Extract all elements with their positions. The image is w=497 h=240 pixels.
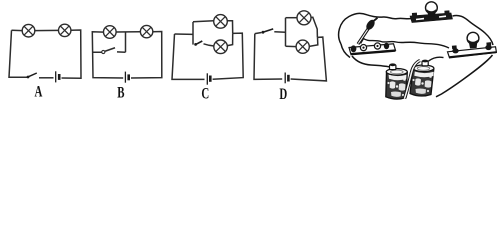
svg-text:C: C (201, 84, 209, 101)
battery BB (125, 72, 128, 83)
node wire: junction vertical (285, 18, 287, 46)
battery BA (56, 71, 60, 82)
lower branch wire (286, 45, 297, 47)
node wire: junction between lamps down (125, 32, 127, 52)
wire: switch to left cell button (352, 56, 391, 67)
wire: bulb 2 to switch right post (361, 39, 450, 49)
lamp A2 (58, 24, 70, 36)
lamp D1 (upper branch) (297, 11, 311, 25)
battery BC (207, 73, 210, 84)
wire: between cells to right cell button (405, 61, 421, 99)
switch terminal ring 1 (360, 45, 366, 51)
inner branch wire (93, 51, 102, 53)
lamp C1 (upper branch) (214, 15, 228, 29)
bulb 1 glass (426, 2, 438, 17)
switch feed wire (255, 33, 262, 34)
switch SB (open, ring pivot) on inner branch (102, 48, 115, 54)
lamp D2 (lower branch) (296, 40, 309, 53)
switch SC (open) on lower branch (194, 41, 202, 46)
battery BD (285, 73, 288, 84)
lower branch wire (204, 44, 214, 46)
switch binding post right (384, 43, 389, 49)
svg-text:D: D (279, 85, 287, 101)
lamp C2 (lower branch) (214, 40, 228, 54)
lamp B2 (140, 25, 152, 37)
upper branch wire (193, 21, 214, 22)
bulb 1 base plate (410, 10, 453, 22)
circuit C outer loop wires (172, 21, 243, 80)
node wire: junction vertical (192, 22, 194, 45)
switch base plate (349, 44, 396, 55)
switch SD (open) on left feed (262, 29, 274, 34)
lamp B1 (104, 26, 117, 39)
wire: bulb 2 down to cells (long diagonal) (436, 55, 493, 97)
wire: right cell button stub (429, 57, 444, 61)
dry cell right (410, 60, 434, 96)
switch SA (open) on bottom wire (27, 73, 37, 78)
circuit B loop wires (92, 32, 162, 79)
wire: arc lower tail into switch base (341, 44, 350, 58)
upper branch wire (286, 17, 298, 19)
bulb 2 base plate (448, 42, 497, 58)
wire: bulb 1 to bulb 2 (453, 15, 494, 45)
svg-text:B: B (117, 83, 124, 101)
dry cell left (386, 63, 408, 99)
wire: switch to bulb 1 (big arc) (339, 13, 412, 44)
circuit D outer loop wires (254, 17, 326, 81)
switch lever arm (358, 18, 378, 44)
lamp A1 (22, 24, 35, 37)
switch binding post left (351, 45, 357, 52)
circuit A loop wires (9, 30, 81, 78)
switch terminal ring 2 (374, 43, 380, 49)
bulb 2 glass (467, 32, 479, 48)
svg-text:A: A (34, 82, 42, 100)
